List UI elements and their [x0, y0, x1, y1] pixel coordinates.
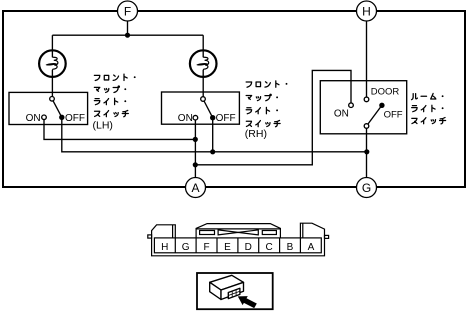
- svg-text:OFF: OFF: [384, 110, 403, 121]
- svg-text:DOOR: DOOR: [371, 87, 400, 98]
- svg-text:(RH): (RH): [245, 128, 267, 140]
- svg-text:C: C: [265, 242, 272, 253]
- svg-text:(LH): (LH): [93, 120, 113, 132]
- svg-text:A: A: [308, 242, 315, 253]
- svg-text:D: D: [245, 242, 252, 253]
- svg-text:OFF: OFF: [216, 113, 236, 124]
- svg-text:F: F: [204, 242, 210, 253]
- svg-text:A: A: [191, 181, 199, 195]
- svg-text:OFF: OFF: [65, 113, 85, 124]
- svg-text:ON: ON: [178, 113, 193, 124]
- svg-text:E: E: [224, 242, 231, 253]
- svg-text:G: G: [182, 242, 190, 253]
- svg-text:ON: ON: [334, 109, 349, 120]
- svg-text:G: G: [362, 181, 371, 195]
- svg-text:H: H: [161, 242, 168, 253]
- svg-text:F: F: [124, 4, 131, 18]
- svg-text:B: B: [287, 242, 294, 253]
- svg-text:H: H: [362, 4, 371, 18]
- svg-text:ON: ON: [26, 113, 41, 124]
